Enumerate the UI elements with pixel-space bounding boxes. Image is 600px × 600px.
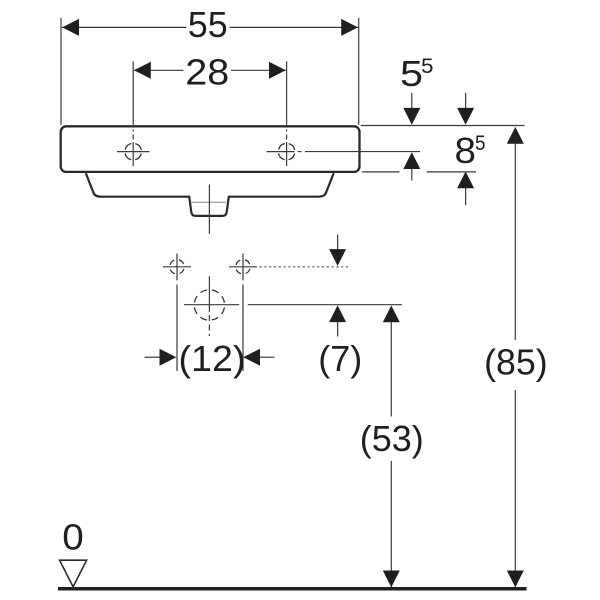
tap hole right centerline [286, 130, 288, 168]
dimension 28 arrow right [269, 62, 286, 79]
supply connection right crosshair [229, 254, 257, 281]
dimension 8.5 down arrow [457, 93, 474, 125]
svg-text:(53): (53) [360, 418, 424, 459]
ground line [58, 587, 527, 591]
top reference line [361, 125, 525, 127]
dimension 12 right arrow [243, 349, 274, 366]
supply connection right circle [236, 260, 250, 274]
rim bottom reference line [362, 171, 476, 173]
supply connection left crosshair [163, 254, 191, 281]
dimension 85 line with arrows [507, 127, 524, 587]
drain connection circle [194, 290, 224, 320]
dimension 5.5 label [400, 53, 434, 94]
tap level reference line (dashed, to right) [298, 151, 302, 153]
dimension 8.5 label [455, 130, 486, 171]
dimension 28 arrow left [134, 62, 151, 79]
dimension 55 line [62, 26, 358, 28]
svg-text:55: 55 [188, 4, 228, 45]
dimension 55 extension line left [60, 18, 62, 125]
svg-text:5: 5 [421, 55, 434, 78]
tap hole left circle [125, 143, 142, 160]
drain connection centerline [208, 276, 210, 336]
dimension 28 line [134, 69, 286, 71]
dimension 7 up arrow [329, 305, 346, 336]
drain centerline upper segment [208, 185, 210, 234]
drain level line [184, 304, 402, 306]
supply left extension down [176, 285, 178, 372]
supply right extension down [242, 285, 244, 372]
tap hole right crosshair [267, 151, 295, 153]
supply connection left circle [170, 260, 184, 274]
datum triangle [60, 560, 87, 587]
washbasin bowl with drain outlet [86, 173, 334, 216]
tap hole right circle [278, 143, 295, 160]
dimension 12 left arrow [145, 349, 177, 366]
dimension 55 arrow left [62, 19, 79, 36]
svg-text:0: 0 [62, 517, 84, 558]
dimension 28 extension right [286, 61, 288, 125]
drain outlet inner line [191, 201, 227, 203]
tap hole left crosshair [117, 151, 150, 153]
svg-text:8: 8 [455, 130, 477, 171]
svg-text:28: 28 [185, 51, 229, 92]
svg-text:5: 5 [400, 53, 423, 94]
dimension 55 arrow right [341, 19, 358, 36]
dimension 5.5 up arrow [403, 152, 420, 180]
dimension 7 down arrow [329, 235, 346, 266]
svg-text:(85): (85) [484, 341, 548, 382]
dimension 55 extension line right [358, 18, 360, 125]
svg-text:(12): (12) [179, 338, 246, 379]
svg-text:(7): (7) [318, 338, 362, 379]
dimension 8.5 up arrow [457, 172, 474, 206]
tap hole left centerline [132, 130, 134, 168]
supply level dotted line [260, 266, 349, 268]
washbasin rim (front view) [61, 126, 360, 172]
svg-text:5: 5 [475, 132, 486, 155]
dimension 53 line with arrows [383, 306, 400, 588]
dimension 5.5 down arrow [403, 93, 420, 125]
dimension 28 extension left [132, 61, 134, 125]
